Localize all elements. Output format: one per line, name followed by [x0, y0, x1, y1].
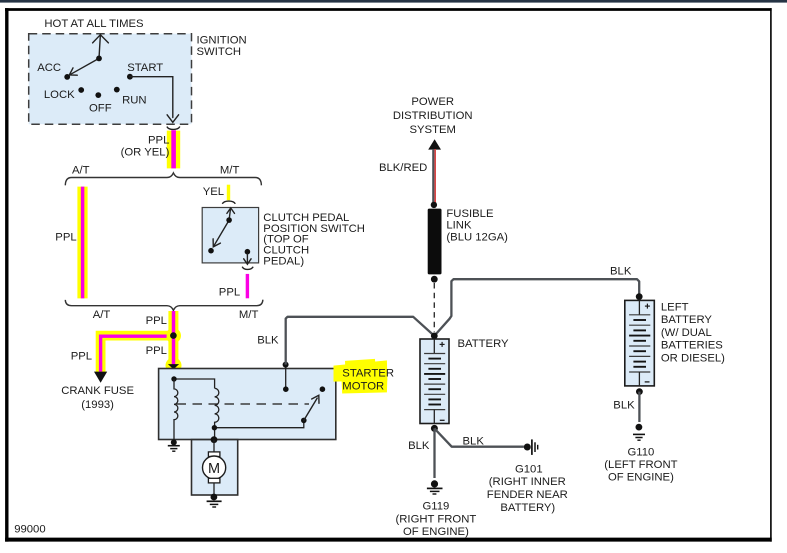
node solenoid top [171, 376, 176, 381]
junction halo [166, 328, 181, 343]
motor sub-box [192, 440, 238, 495]
wire BLK starter to battery [286, 317, 435, 365]
node LOCK [78, 87, 84, 93]
starter motor box [159, 369, 336, 440]
node OFF [95, 92, 101, 98]
dashed wire fusible link to battery [433, 283, 435, 332]
svg-text:PPL: PPL [55, 231, 76, 243]
solenoid switch contact node [320, 386, 326, 392]
wire PPL from ignition (yellow highlight) [167, 131, 180, 169]
svg-text:LOCK: LOCK [44, 89, 75, 101]
node left battery negative [636, 388, 643, 395]
svg-text:LEFT: LEFT [661, 301, 689, 313]
node above fusible link [431, 202, 437, 208]
clutch switch output arrow [244, 254, 251, 264]
label FUSIBLE LINK (BLU 12GA) [446, 208, 508, 244]
ground G110 symbol [633, 424, 645, 441]
svg-text:A/T: A/T [72, 164, 90, 176]
wire motor to ground [213, 483, 215, 497]
left battery minus sign [645, 381, 650, 383]
svg-text:M/T: M/T [220, 164, 240, 176]
node ACC [64, 74, 70, 80]
svg-text:BATTERY): BATTERY) [500, 502, 555, 514]
starter feed arrow halo [166, 358, 182, 374]
left battery plates [629, 300, 650, 386]
svg-text:DISTRIBUTION: DISTRIBUTION [393, 110, 473, 122]
wire PPL from ignition (magenta) [171, 130, 176, 168]
svg-text:PPL: PPL [148, 134, 169, 146]
solenoid switch pivot node [301, 418, 307, 424]
clutch pedal position switch box [202, 208, 258, 263]
brace A/T M/T bottom [65, 300, 263, 311]
svg-text:(W/ DUAL: (W/ DUAL [661, 327, 712, 339]
clutch switch top node [226, 217, 232, 223]
svg-text:LINK: LINK [446, 219, 472, 231]
wire battery to left battery [434, 279, 639, 336]
wire crank fuse branch (magenta) [101, 336, 167, 371]
svg-text:PPL: PPL [219, 286, 240, 298]
svg-text:OF ENGINE): OF ENGINE) [403, 526, 469, 538]
battery box [420, 339, 449, 424]
svg-text:YEL: YEL [203, 186, 224, 198]
svg-text:(BLU 12GA): (BLU 12GA) [446, 231, 508, 243]
svg-text:OFF: OFF [89, 102, 112, 114]
highlight STARTER MOTOR [334, 359, 388, 394]
node below fusible link [431, 276, 438, 283]
svg-text:BATTERIES: BATTERIES [661, 340, 723, 352]
arrow to power distribution [428, 139, 441, 149]
motor bottom brush [208, 478, 220, 483]
svg-text:BLK: BLK [613, 399, 635, 411]
svg-text:HOT AT ALL TIMES: HOT AT ALL TIMES [44, 18, 144, 30]
wire coil to switch pivot [215, 420, 304, 427]
left battery plus sign [645, 304, 650, 309]
svg-text:BLK/RED: BLK/RED [379, 162, 427, 174]
svg-text:STARTER: STARTER [342, 367, 394, 379]
wire BLK battery to G101 [434, 428, 524, 446]
svg-text:PPL: PPL [146, 315, 167, 327]
svg-text:BATTERY: BATTERY [458, 338, 510, 350]
svg-text:G101: G101 [515, 463, 543, 475]
svg-text:SWITCH: SWITCH [197, 46, 242, 58]
label IGNITION SWITCH [197, 35, 247, 59]
node RUN [114, 87, 120, 93]
svg-text:RUN: RUN [122, 95, 146, 107]
solenoid switch arm [304, 395, 319, 420]
svg-text:(1993): (1993) [81, 399, 114, 411]
wire PPL feed to starter (magenta) [172, 311, 176, 365]
coil L1 pull-in winding [174, 379, 178, 441]
clutch switch arm [213, 220, 229, 247]
svg-text:(LEFT FRONT: (LEFT FRONT [604, 459, 677, 471]
ground node under motor [211, 494, 218, 501]
node START [127, 74, 133, 80]
battery plus sign [440, 342, 445, 347]
coil L2 hold-in winding [215, 388, 219, 439]
fusible link F1 [428, 209, 442, 275]
svg-text:M: M [208, 461, 220, 477]
svg-text:MOTOR: MOTOR [342, 380, 384, 392]
node starter battery terminal [283, 386, 289, 392]
svg-text:IGNITION: IGNITION [197, 35, 247, 47]
ignition pivot node [96, 56, 102, 62]
wire motor feed [213, 440, 215, 452]
wire YEL stub [227, 185, 230, 201]
svg-text:PPL: PPL [71, 351, 92, 363]
ignition wiper arm to ACC [69, 58, 99, 75]
svg-text:START: START [127, 62, 163, 74]
ground symbol under motor [207, 501, 222, 507]
ground symbol under coil L1 [168, 446, 180, 452]
label G110 [604, 446, 677, 483]
motor M1 circle [203, 456, 226, 479]
svg-text:A/T: A/T [93, 309, 111, 321]
svg-text:FENDER NEAR: FENDER NEAR [487, 489, 568, 501]
svg-text:(RIGHT INNER: (RIGHT INNER [489, 476, 566, 488]
node coil L2 tap [212, 425, 217, 430]
svg-text:G110: G110 [628, 446, 655, 458]
svg-text:BLK: BLK [257, 335, 279, 347]
node battery negative [431, 425, 438, 432]
starter feed arrow into starter motor [168, 364, 179, 369]
wire feed stub inside starter box [173, 369, 175, 379]
node battery positive [431, 333, 438, 340]
svg-text:BLK: BLK [408, 440, 430, 452]
svg-text:BLK: BLK [463, 436, 485, 448]
svg-text:99000: 99000 [14, 523, 45, 535]
battery plates [424, 339, 445, 424]
label G101 [487, 463, 568, 514]
wire START output [130, 77, 179, 123]
svg-text:SYSTEM: SYSTEM [409, 124, 455, 136]
svg-text:M/T: M/T [239, 309, 259, 321]
connector cap above clutch switch [222, 201, 235, 204]
connector cup below ignition switch [167, 127, 180, 130]
clutch switch output node [245, 249, 251, 255]
svg-text:BATTERY: BATTERY [661, 314, 713, 326]
label G119 [396, 501, 477, 538]
wire PPL feed to starter (yellow highlight) [168, 311, 178, 365]
ignition feed arrow to HOT [93, 35, 109, 59]
svg-text:CRANK FUSE: CRANK FUSE [61, 385, 134, 397]
junction node PPL [170, 332, 177, 339]
wire PPL A/T vertical (magenta) [81, 187, 85, 299]
label CLUTCH PEDAL POSITION SWITCH [263, 212, 365, 268]
svg-text:OF ENGINE): OF ENGINE) [608, 472, 674, 484]
wire PPL A/T vertical (yellow highlight) [77, 187, 87, 299]
label POWER DISTRIBUTION SYSTEM [393, 96, 473, 136]
svg-text:FUSIBLE: FUSIBLE [446, 208, 494, 220]
ignition switch box [29, 34, 192, 125]
wire BLK battery to G119 [433, 428, 435, 478]
ground node under coil L1 [171, 439, 177, 445]
left battery box [625, 300, 655, 386]
svg-text:BLK: BLK [610, 266, 632, 278]
wire PPL below clutch switch (magenta) [246, 274, 249, 298]
ground G119 symbol [427, 480, 443, 494]
brace A/T M/T top [65, 173, 261, 185]
wire BLK/RED [433, 149, 435, 204]
svg-text:OR DIESEL): OR DIESEL) [661, 353, 725, 365]
ground G101 symbol [524, 439, 538, 455]
top dark bar [0, 0, 787, 3]
svg-text:G119: G119 [423, 501, 450, 513]
battery minus sign [440, 419, 445, 421]
node BLK entry [283, 362, 289, 368]
svg-text:PEDAL): PEDAL) [263, 256, 304, 268]
clutch switch up arrow [227, 208, 235, 220]
svg-text:POWER: POWER [411, 96, 454, 108]
clutch switch lower node [208, 248, 214, 254]
crank fuse arrow [94, 372, 107, 383]
node motor feed [211, 436, 218, 443]
wire BLK left battery to G110 [638, 392, 640, 422]
wire crank fuse branch (yellow highlight) [101, 336, 174, 372]
motor top brush [208, 452, 220, 457]
svg-text:PPL: PPL [146, 345, 167, 357]
starter internal dashed line [177, 403, 310, 405]
wire BLK drop into starter [285, 365, 287, 390]
svg-text:(RIGHT FRONT: (RIGHT FRONT [396, 513, 477, 525]
svg-text:ACC: ACC [37, 62, 61, 74]
connector cup below clutch switch [242, 267, 253, 270]
label LEFT BATTERY [661, 301, 725, 364]
svg-text:(OR YEL): (OR YEL) [121, 146, 170, 158]
node left battery positive [636, 293, 643, 300]
wire solenoid top [174, 379, 215, 388]
